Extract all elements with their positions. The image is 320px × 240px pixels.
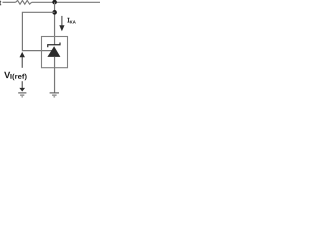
node ref feedback junction: [52, 10, 57, 15]
resistor R: [16, 0, 32, 4]
node cathode top junction: [52, 0, 57, 4]
ground left: [18, 92, 26, 94]
input label (cropped "t" of Input): [0, 1, 1, 6]
ground right: [50, 92, 59, 94]
label IKA: [67, 18, 69, 23]
wire ref feedback: [22, 12, 54, 50]
voltage arrow up VI(ref): [20, 52, 25, 57]
current arrow IKA: [61, 16, 63, 26]
wire input to resistor: [3, 1, 16, 3]
label VI(ref): [4, 72, 10, 78]
regulator box U1: [42, 37, 68, 68]
zener cathode bar: [48, 43, 60, 48]
wire anode to ground: [54, 57, 56, 93]
voltage arrow down to ground: [21, 81, 23, 88]
zener diode triangle: [47, 46, 60, 57]
wire cathode vertical: [54, 2, 56, 45]
wire resistor to right edge: [32, 1, 100, 3]
